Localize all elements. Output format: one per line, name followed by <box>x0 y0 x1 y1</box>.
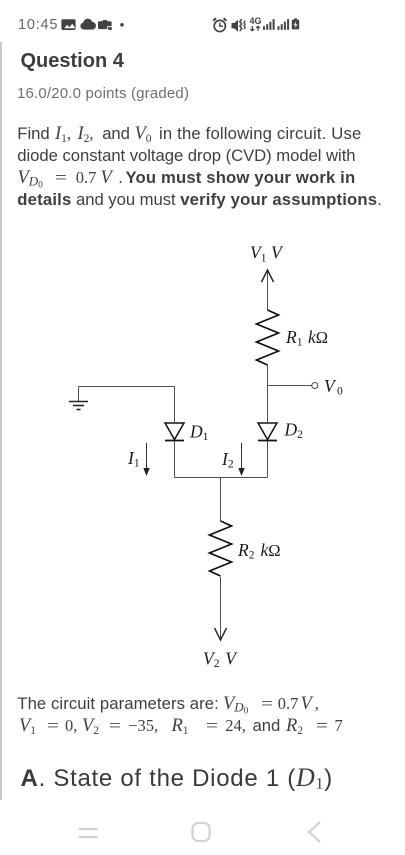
svg-text:V1V: V1V <box>250 243 284 265</box>
svg-text:R1kΩ: R1kΩ <box>285 327 328 349</box>
svg-text:D2: D2 <box>284 420 304 442</box>
svg-text:D1: D1 <box>189 422 209 444</box>
svg-text:V0: V0 <box>324 376 343 398</box>
svg-text:I1: I1 <box>127 448 140 470</box>
svg-text:I2: I2 <box>221 449 234 471</box>
svg-text:R2kΩ: R2kΩ <box>237 540 281 562</box>
svg-text:V2V: V2V <box>203 649 238 671</box>
svg-text:4G: 4G <box>250 16 262 26</box>
